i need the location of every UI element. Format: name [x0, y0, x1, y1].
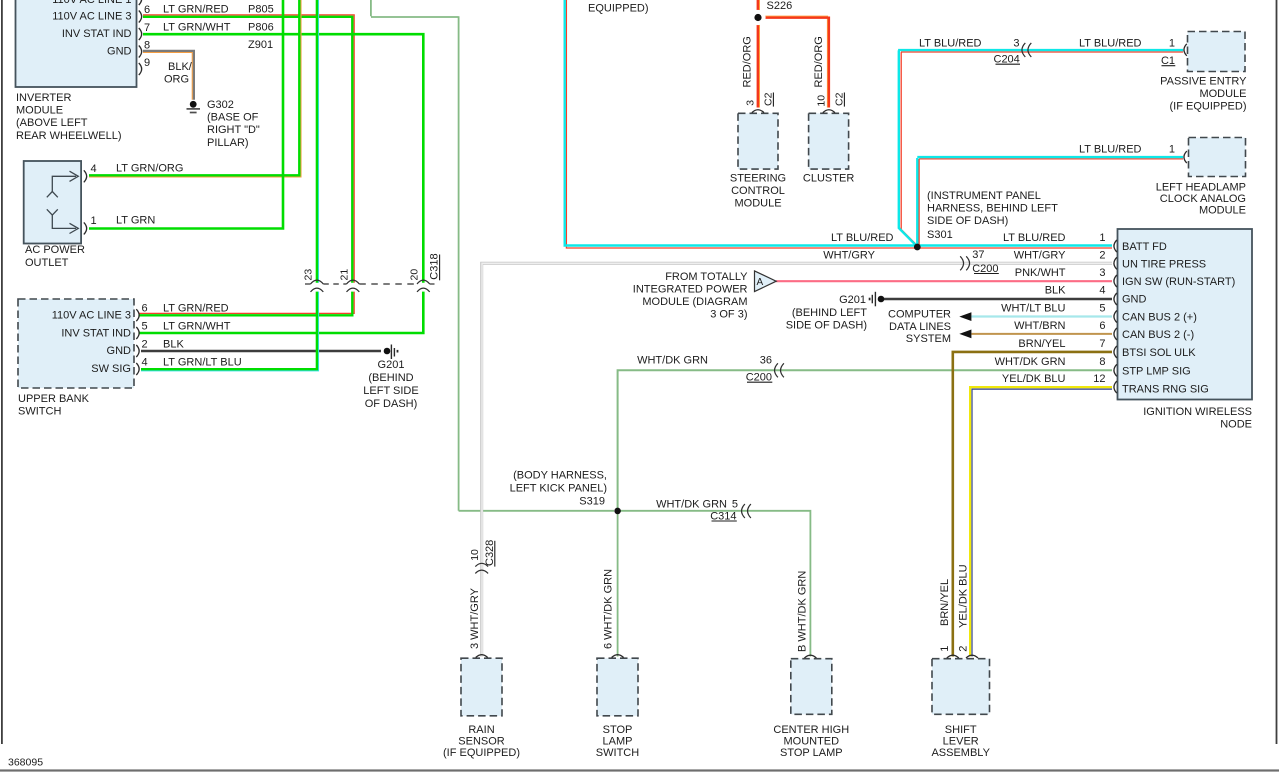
computer data lines arrow (CAN -)	[959, 330, 971, 339]
svg-text:Z901: Z901	[248, 39, 273, 51]
wire LT GRN: AC power outlet pin 1 riser to top edge	[89, 0, 283, 229]
cluster box	[809, 113, 849, 169]
svg-text:10: 10	[469, 549, 481, 561]
svg-text:GND: GND	[107, 345, 132, 357]
svg-text:(BEHIND LEFT: (BEHIND LEFT	[792, 307, 867, 319]
connector C200 break arcs (WHT/DK GRN, pin 36)	[775, 363, 784, 377]
svg-text:A: A	[757, 277, 764, 288]
svg-text:DATA LINES: DATA LINES	[889, 321, 951, 333]
steering control module box	[738, 113, 778, 169]
svg-text:(IF EQUIPPED): (IF EQUIPPED)	[443, 747, 520, 759]
svg-text:LT GRN: LT GRN	[116, 215, 155, 227]
svg-text:C2: C2	[762, 92, 774, 106]
wire LT GRN/ORG: AC power outlet pin 4 riser to top edge	[89, 0, 301, 177]
svg-text:368095: 368095	[8, 757, 43, 769]
svg-text:5: 5	[142, 321, 148, 333]
svg-text:37: 37	[972, 249, 984, 261]
svg-text:LT GRN/ORG: LT GRN/ORG	[116, 163, 183, 175]
svg-text:6: 6	[144, 4, 150, 16]
svg-text:4: 4	[1099, 285, 1105, 297]
wire WHT/GRY: ignition node pin 2 through C200 and C328 to rain sensor	[482, 263, 1112, 656]
svg-text:LT GRN/RED: LT GRN/RED	[163, 303, 229, 315]
svg-text:CONTROL: CONTROL	[731, 185, 785, 197]
svg-text:BLK: BLK	[163, 339, 184, 351]
svg-text:STOP LAMP: STOP LAMP	[780, 747, 843, 759]
pin bracket: center high mounted stop lamp pin B	[804, 655, 816, 658]
wire LT BLU/RED: C204 wire to passive entry module	[901, 51, 1183, 53]
svg-text:8: 8	[1099, 356, 1105, 368]
svg-text:2: 2	[958, 646, 970, 652]
wire WHT/BRN: CAN bus (-) arrow to ignition node pin 6	[972, 333, 1113, 335]
splice S319 junction dot	[614, 508, 621, 515]
svg-text:LT GRN/RED: LT GRN/RED	[163, 4, 229, 16]
svg-text:6: 6	[142, 303, 148, 315]
svg-text:WHT/DK GRN: WHT/DK GRN	[656, 499, 727, 511]
ignition wireless node box	[1118, 229, 1253, 400]
connector C204 break arcs	[1022, 43, 1031, 57]
svg-text:BLK/: BLK/	[168, 61, 193, 73]
svg-text:BTSI SOL ULK: BTSI SOL ULK	[1122, 347, 1196, 359]
svg-text:OF DASH): OF DASH)	[365, 398, 418, 410]
svg-text:LT GRN/WHT: LT GRN/WHT	[163, 22, 231, 34]
stop lamp switch box	[597, 658, 638, 716]
svg-text:3 OF 3): 3 OF 3)	[710, 309, 747, 321]
svg-text:BRN/YEL: BRN/YEL	[939, 579, 951, 626]
ground G302 symbol	[190, 101, 197, 108]
svg-text:3 WHT/GRY: 3 WHT/GRY	[469, 587, 481, 649]
svg-text:LAMP: LAMP	[603, 736, 633, 748]
left page border	[1, 0, 3, 744]
ground G201 symbol (upper bank switch pin 2)	[384, 348, 391, 355]
svg-text:MODULE: MODULE	[1199, 88, 1246, 100]
svg-text:YEL/DK BLU: YEL/DK BLU	[958, 564, 970, 628]
svg-text:SYSTEM: SYSTEM	[906, 333, 951, 345]
svg-text:SW SIG: SW SIG	[91, 363, 131, 375]
svg-text:MODULE (DIAGRAM: MODULE (DIAGRAM	[642, 296, 747, 308]
svg-text:110V AC LINE 3: 110V AC LINE 3	[52, 11, 131, 23]
svg-text:36: 36	[760, 355, 772, 367]
svg-text:LT BLU/RED: LT BLU/RED	[919, 38, 982, 50]
svg-text:5: 5	[1099, 303, 1105, 315]
wire WHT/DK GRN: splice S319 up to ignition node pin 8 (gap at C200)	[618, 370, 1112, 511]
svg-text:20: 20	[409, 269, 421, 281]
svg-text:C328: C328	[484, 540, 496, 566]
pin bracket: cluster pin 10	[823, 110, 835, 113]
wire LT BLU/RED: riser from top edge to S301 row (red tracer)	[566, 0, 1112, 248]
pin bracket: steering control module pin 3	[752, 110, 764, 113]
shift lever assembly box	[932, 659, 990, 715]
svg-text:S226: S226	[767, 0, 793, 12]
svg-text:6 WHT/DK GRN: 6 WHT/DK GRN	[603, 569, 615, 649]
svg-text:LEVER: LEVER	[943, 736, 979, 748]
svg-text:INV STAT IND: INV STAT IND	[61, 327, 131, 339]
svg-text:MODULE: MODULE	[734, 198, 781, 210]
pin brackets: inverter module pins (6,7,8,9 and cut top pin)	[139, 0, 142, 75]
svg-text:SWITCH: SWITCH	[596, 747, 639, 759]
svg-text:RIGHT "D": RIGHT "D"	[207, 124, 260, 136]
svg-text:(INSTRUMENT PANEL: (INSTRUMENT PANEL	[927, 190, 1041, 202]
svg-text:S301: S301	[927, 229, 953, 241]
wire LT BLU/RED: C204 branch down to splice S301	[901, 52, 918, 246]
svg-text:(BEHIND: (BEHIND	[368, 372, 413, 384]
pin brackets: ignition wireless node pins	[1114, 240, 1117, 393]
svg-text:STOP: STOP	[603, 724, 633, 736]
wire LT GRN/RED green conductor	[143, 17, 352, 283]
svg-text:G201: G201	[839, 294, 866, 306]
svg-text:LEFT SIDE: LEFT SIDE	[363, 385, 418, 397]
svg-text:LEFT KICK PANEL): LEFT KICK PANEL)	[510, 482, 607, 494]
svg-text:LT BLU/RED: LT BLU/RED	[1079, 38, 1142, 50]
svg-text:CLOCK ANALOG: CLOCK ANALOG	[1160, 193, 1246, 205]
AC power outlet box	[24, 161, 81, 244]
pin brackets: shift lever assembly pins 1,2	[947, 655, 959, 658]
svg-text:OUTLET: OUTLET	[25, 257, 69, 269]
svg-text:LT BLU/RED: LT BLU/RED	[1079, 143, 1142, 155]
splice S226 junction dot	[750, 10, 765, 25]
svg-text:BATT FD: BATT FD	[1122, 241, 1167, 253]
wire WHT/DK GRN: splice S319 right through C314 to center high mounted stop lamp	[618, 511, 811, 657]
passive entry module box	[1188, 32, 1246, 72]
svg-text:LT BLU/RED: LT BLU/RED	[831, 232, 894, 244]
wire BLK: ground G201 to ignition node pin 4	[883, 298, 1112, 301]
svg-text:PILLAR): PILLAR)	[207, 137, 249, 149]
ground G201 symbol (ignition node pin 4)	[869, 298, 871, 301]
AC power outlet internal switch symbol	[47, 171, 79, 233]
svg-text:WHT/GRY: WHT/GRY	[1014, 249, 1066, 261]
svg-text:3: 3	[1013, 38, 1019, 50]
svg-text:CENTER HIGH: CENTER HIGH	[773, 724, 849, 736]
svg-text:PNK/WHT: PNK/WHT	[1015, 267, 1066, 279]
bottom page border	[0, 769, 1279, 771]
wire LT GRN/WHT: inverter pin 7 to upper bank switch pin 5	[143, 34, 423, 283]
from-TIPM arrow triangle A	[755, 271, 777, 292]
svg-text:1: 1	[91, 215, 97, 227]
svg-text:RED/ORG: RED/ORG	[742, 36, 754, 87]
svg-text:MOUNTED: MOUNTED	[783, 736, 839, 748]
svg-text:HARNESS, BEHIND LEFT: HARNESS, BEHIND LEFT	[927, 202, 1058, 214]
svg-text:LEFT HEADLAMP: LEFT HEADLAMP	[1156, 181, 1246, 193]
svg-text:STP LMP SIG: STP LMP SIG	[1122, 365, 1191, 377]
svg-text:WHT/BRN: WHT/BRN	[1014, 320, 1065, 332]
svg-text:10: 10	[815, 95, 827, 107]
wire LT GRN/LT BLU: upper bank switch pin 4 riser to top edge (lt blue tracer)	[141, 0, 318, 371]
svg-text:S319: S319	[579, 496, 605, 508]
svg-text:8: 8	[144, 40, 150, 52]
svg-text:RED/ORG: RED/ORG	[813, 36, 825, 87]
svg-text:RAIN: RAIN	[468, 724, 494, 736]
svg-text:CAN BUS 2 (-): CAN BUS 2 (-)	[1122, 329, 1194, 341]
svg-text:110V AC LINE 1: 110V AC LINE 1	[52, 0, 131, 6]
svg-text:2: 2	[1099, 249, 1105, 261]
svg-text:GND: GND	[1122, 294, 1147, 306]
pin brackets: AC power outlet pins 4,1	[84, 170, 87, 234]
svg-text:C2: C2	[833, 92, 845, 106]
wire RED/ORG: from top edge through splice S226 to steering control module pin 3	[758, 0, 760, 108]
svg-text:1: 1	[1169, 143, 1175, 155]
wire BRN/YEL: ignition node pin 7 to shift lever assembly pin 1	[953, 352, 1112, 657]
svg-text:7: 7	[144, 22, 150, 34]
computer data lines arrow (CAN +)	[959, 312, 971, 321]
svg-text:SENSOR: SENSOR	[458, 736, 505, 748]
center high mounted stop lamp box	[791, 659, 832, 715]
upper bank switch box	[18, 299, 134, 388]
svg-text:(BASE OF: (BASE OF	[207, 112, 259, 124]
svg-text:110V AC LINE 3: 110V AC LINE 3	[52, 310, 131, 322]
svg-text:LT GRN/WHT: LT GRN/WHT	[163, 321, 231, 333]
svg-text:STEERING: STEERING	[730, 173, 786, 185]
svg-text:WHT/LT BLU: WHT/LT BLU	[1001, 303, 1065, 315]
svg-text:(ABOVE LEFT: (ABOVE LEFT	[16, 117, 88, 129]
svg-text:LT BLU/RED: LT BLU/RED	[1003, 232, 1066, 244]
svg-text:1: 1	[939, 646, 951, 652]
right page border	[1276, 0, 1278, 744]
wire PNK/WHT: from TIPM triangle A to ignition node pin 3	[776, 280, 1112, 282]
pin bracket: stop lamp switch pin 6	[612, 655, 624, 658]
svg-text:P806: P806	[248, 22, 274, 34]
svg-text:GND: GND	[107, 46, 132, 58]
svg-text:BLK: BLK	[1045, 285, 1066, 297]
wire RED/ORG: splice S226 branch to cluster pin 10	[760, 16, 828, 107]
svg-text:AC POWER: AC POWER	[25, 244, 85, 256]
wire WHT/LT BLU: CAN bus (+) arrow to ignition node pin 5	[972, 315, 1113, 317]
svg-text:2: 2	[142, 339, 148, 351]
svg-text:INV STAT IND: INV STAT IND	[62, 28, 132, 40]
svg-text:B WHT/DK GRN: B WHT/DK GRN	[797, 571, 809, 652]
svg-text:WHT/GRY: WHT/GRY	[823, 249, 875, 261]
svg-text:INTEGRATED POWER: INTEGRATED POWER	[633, 283, 748, 295]
svg-text:G302: G302	[207, 99, 234, 111]
svg-text:LT GRN/LT BLU: LT GRN/LT BLU	[163, 357, 242, 369]
svg-text:WHT/DK GRN: WHT/DK GRN	[637, 355, 708, 367]
connector C314 break arcs (pin 5)	[742, 504, 751, 518]
wire BLK/ORG: inverter pin 8 to ground G302	[143, 52, 192, 99]
svg-text:WHT/DK GRN: WHT/DK GRN	[995, 356, 1066, 368]
svg-text:23: 23	[302, 269, 314, 281]
svg-text:REAR WHEELWELL): REAR WHEELWELL)	[16, 130, 122, 142]
svg-text:IGNITION WIRELESS: IGNITION WIRELESS	[1143, 406, 1252, 418]
svg-text:3: 3	[744, 100, 756, 106]
inverter module box	[16, 0, 137, 87]
svg-text:FROM TOTALLY: FROM TOTALLY	[665, 271, 748, 283]
svg-text:(BODY HARNESS,: (BODY HARNESS,	[513, 470, 607, 482]
svg-text:1: 1	[1169, 38, 1175, 50]
svg-text:YEL/DK BLU: YEL/DK BLU	[1002, 373, 1066, 385]
svg-text:COMPUTER: COMPUTER	[888, 308, 951, 320]
svg-text:C318: C318	[429, 253, 441, 279]
svg-text:9: 9	[144, 57, 150, 69]
svg-text:SIDE OF DASH): SIDE OF DASH)	[786, 319, 867, 331]
svg-text:SIDE OF DASH): SIDE OF DASH)	[927, 215, 1008, 227]
svg-text:IGN SW (RUN-START): IGN SW (RUN-START)	[1122, 276, 1235, 288]
svg-text:BRN/YEL: BRN/YEL	[1018, 338, 1065, 350]
svg-text:P805: P805	[248, 4, 274, 16]
wire WHT/DK GRN: splice S319 down to stop lamp switch	[617, 511, 619, 657]
svg-text:21: 21	[339, 269, 351, 281]
wire BLK: upper bank switch pin 2 to ground G201	[141, 350, 381, 353]
splice S301 junction dot	[914, 244, 921, 251]
connector C328 break arcs (pin 10)	[475, 563, 488, 573]
svg-text:MODULE: MODULE	[1199, 204, 1246, 216]
svg-text:NODE: NODE	[1220, 419, 1252, 431]
svg-text:CLUSTER: CLUSTER	[803, 173, 854, 185]
svg-text:1: 1	[1099, 232, 1105, 244]
pin brackets: upper bank switch pins 6,5,2,4	[136, 309, 139, 375]
svg-text:TRANS RNG SIG: TRANS RNG SIG	[1122, 383, 1209, 395]
wire LT GRN/RED: inverter pin 6 to upper bank switch pin 6 (red tracer)	[143, 15, 354, 283]
connector C200 break arcs (WHT/GRY, pin 37)	[960, 256, 969, 270]
svg-text:ASSEMBLY: ASSEMBLY	[931, 747, 990, 759]
svg-text:MODULE: MODULE	[16, 105, 63, 117]
svg-text:SWITCH: SWITCH	[18, 406, 61, 418]
svg-text:PASSIVE ENTRY: PASSIVE ENTRY	[1160, 76, 1247, 88]
left headlamp clock analog module box	[1189, 138, 1246, 177]
pin bracket: passive entry module pin 1 (C1)	[1184, 44, 1187, 56]
svg-text:3: 3	[1099, 267, 1105, 279]
rain sensor box	[461, 658, 502, 716]
svg-text:G201: G201	[378, 359, 405, 371]
svg-text:INVERTER: INVERTER	[16, 92, 71, 104]
svg-text:SHIFT: SHIFT	[945, 724, 977, 736]
svg-text:(IF EQUIPPED): (IF EQUIPPED)	[1169, 101, 1246, 113]
svg-text:UN TIRE PRESS: UN TIRE PRESS	[1122, 258, 1206, 270]
svg-text:4: 4	[142, 357, 148, 369]
svg-text:CAN BUS 2 (+): CAN BUS 2 (+)	[1122, 312, 1197, 324]
svg-text:EQUIPPED): EQUIPPED)	[588, 2, 649, 14]
svg-text:5: 5	[732, 499, 738, 511]
connector C318 dashed line with bridge arcs	[305, 280, 435, 292]
svg-text:12: 12	[1093, 373, 1105, 385]
svg-text:ORG: ORG	[164, 74, 189, 86]
wire YEL/DK BLU: ignition node pin 12 to shift lever assembly pin 2 (dk blue tracer)	[972, 389, 1112, 656]
wire LT BLU/RED: branch to left headlamp clock analog module	[919, 159, 1183, 246]
pin bracket: left headlamp clock analog module pin 1	[1184, 151, 1187, 163]
svg-text:6: 6	[1099, 320, 1105, 332]
svg-text:7: 7	[1099, 338, 1105, 350]
wire WHT/DK GRN: from top edge down, to splice S319	[371, 0, 614, 511]
pin bracket: rain sensor pin 3	[476, 655, 488, 658]
svg-text:4: 4	[91, 163, 97, 175]
svg-text:UPPER BANK: UPPER BANK	[18, 393, 90, 405]
